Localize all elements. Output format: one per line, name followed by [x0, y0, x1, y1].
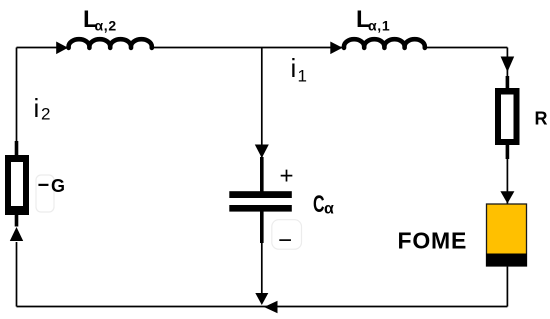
svg-text:FOME: FOME [398, 228, 468, 254]
svg-text:C: C [313, 191, 325, 218]
svg-text:1: 1 [298, 66, 307, 85]
svg-text:−: − [278, 227, 292, 254]
svg-text:i: i [34, 93, 40, 123]
svg-text:+: + [280, 163, 294, 190]
svg-text:i: i [291, 53, 297, 83]
svg-text:2: 2 [41, 105, 50, 124]
svg-text:G: G [51, 176, 65, 196]
svg-text:α,2: α,2 [95, 18, 117, 34]
svg-text:−: − [38, 175, 50, 197]
svg-text:R: R [535, 109, 548, 129]
svg-text:α,1: α,1 [368, 18, 390, 34]
svg-text:α: α [324, 201, 334, 218]
